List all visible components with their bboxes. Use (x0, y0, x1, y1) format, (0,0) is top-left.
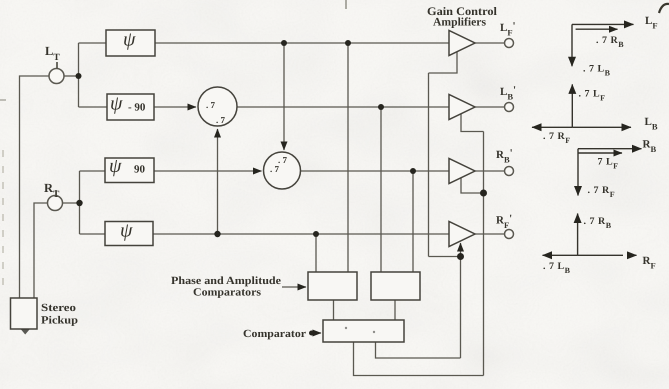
wire: amp4 gain arrow (460, 243, 462, 257)
wire: to psi-90 box 2 input (79, 106, 108, 108)
vector D2 vertical .7L_F (571, 84, 573, 127)
output terminal L_F' (505, 39, 514, 48)
output terminal R_F' (505, 230, 514, 239)
dot at comparator arrow tail (309, 331, 314, 336)
vector D4 right R_F head (628, 254, 637, 256)
wire: arrow into box A (282, 286, 306, 288)
wire: back control to amp2 (461, 114, 484, 132)
wire: comparator out 1 inner loop (376, 342, 461, 358)
svg-text:Amplifiers: Amplifiers (433, 17, 487, 29)
wire: tap from line 1 down into summer 2 (283, 43, 285, 150)
svg-text:Pickup: Pickup (41, 315, 78, 327)
wire: amp4 node down (460, 257, 462, 359)
vector D2 left .7R_F (532, 126, 572, 128)
vector diagram 1: L_F' composition (532, 24, 642, 255)
junction dot R_T (76, 200, 82, 206)
wire: amp3 gain control stub (461, 178, 484, 194)
junction dot line4 sense (313, 231, 319, 237)
junction dot line1 tap (281, 40, 287, 46)
svg-text:ψ: ψ (120, 220, 133, 242)
psi-90 box 2 (107, 94, 154, 120)
wire: line 1 L_F bus (155, 42, 449, 44)
vector D1 vertical .7L_B (571, 24, 573, 66)
junction dot line1 sense (345, 40, 351, 46)
vector D1 short .7R_B arrow (576, 28, 618, 30)
junction dot back riser amp3 tap (480, 190, 487, 197)
svg-text:90: 90 (134, 164, 146, 176)
amp 1 (449, 31, 475, 56)
output terminal R_B' (505, 167, 514, 176)
svg-text:ψ: ψ (123, 29, 136, 51)
wire: sense line 3 to comparator box B (412, 171, 414, 272)
wire: comparator out 2 outer loop (354, 342, 484, 376)
amp 3 (449, 159, 475, 184)
psi box 1 (106, 30, 155, 56)
wire: box A to comparator (333, 300, 335, 320)
psi box 4 (105, 222, 153, 246)
vector D1 horizontal L_F (572, 23, 634, 25)
wire: psi 90 box 3 output arrow into summer 2 (154, 170, 262, 172)
junction dot amp4 gain node (457, 253, 464, 260)
wire: arrow into comparator (311, 332, 321, 334)
svg-text:Comparators: Comparators (193, 287, 262, 299)
junction dot line4 tap (214, 231, 220, 237)
comparator box A (308, 272, 357, 300)
wire: sense line 4 to comparator box A (315, 234, 317, 272)
scan artifact: left page edge streak (2, 150, 4, 285)
amp 4 (449, 222, 475, 247)
scan artifact: top centre dash (345, 0, 347, 9)
wire: amp4 output (475, 233, 505, 235)
svg-text:ψ: ψ (110, 93, 123, 115)
svg-text:. 7: . 7 (206, 100, 216, 110)
junction dot L_T (76, 73, 82, 79)
pickup needle (21, 330, 30, 335)
summer circle 1 (198, 87, 237, 126)
wire: back control riser (483, 132, 485, 376)
vector D4 left .7L_B (543, 254, 578, 256)
wire: L_T junction vertical (78, 43, 80, 107)
vector D3 vertical .7R_F (577, 149, 579, 196)
svg-text:Comparator: Comparator (243, 328, 306, 340)
svg-text:. 7: . 7 (278, 155, 288, 165)
output terminal L_B' (505, 103, 514, 112)
terminal R_T (48, 196, 63, 211)
wire: line 4 R_F bus (153, 233, 449, 235)
scan artifact: left margin dash (0, 99, 6, 101)
wire: front control riser (428, 73, 430, 257)
junction dot line3 sense (410, 168, 416, 174)
wire: L_T terminal to junction (64, 75, 79, 77)
svg-text:ψ: ψ (109, 155, 122, 177)
wire: to psi-90 box 3 input (80, 170, 106, 172)
wire: psi-90 box 2 output arrow into summer 1 (154, 106, 196, 108)
wire: tap from line 4 up into summer 1 (217, 129, 219, 234)
wire: line 2 from summer 1 to amp 2 (238, 106, 450, 108)
vector D3 short .7L_F arrow (579, 152, 623, 154)
tick below R_T label (55, 190, 57, 196)
wire: sense line 1 to comparator box A (347, 43, 349, 272)
svg-text:- 90: - 90 (128, 102, 146, 114)
speck in comparator box (345, 327, 347, 329)
comparator box B (371, 272, 420, 300)
vector D3 horizontal R_B (578, 148, 642, 150)
vector D4 vertical .7R_B (577, 214, 579, 256)
wire: R_T to stereo pickup (34, 203, 48, 298)
tick below L_T label (56, 62, 58, 69)
comparator box C (323, 320, 404, 342)
wire: box B to comparator (394, 300, 396, 320)
vector D2 right L_B (572, 126, 631, 128)
wire: to psi box 4 input (80, 233, 106, 235)
speck in comparator box (373, 331, 375, 333)
svg-text:. 7: . 7 (270, 164, 280, 174)
summer circle 2 (264, 152, 301, 189)
amp 2 (449, 95, 475, 120)
wire: amp2 output (475, 106, 505, 108)
wire: amp1 gain control stub (429, 52, 458, 74)
vector D4 right R_F line (578, 254, 623, 256)
psi 90 box 3 (105, 158, 154, 183)
wire: summer 2 output to amp 3 (301, 170, 450, 172)
wire: sense line 2 to comparator box B (380, 107, 382, 272)
wire: front control to amp4 node (429, 256, 461, 258)
scan artifact: top right hook (659, 4, 669, 13)
svg-text:Stereo: Stereo (41, 302, 77, 314)
wire: amp3 output (475, 170, 505, 172)
svg-text:. 7: . 7 (216, 115, 226, 125)
wire: R_T junction vertical (79, 171, 81, 234)
junction dot line2 sense (378, 104, 384, 110)
terminal L_T (49, 69, 64, 84)
wire: amp1 output (475, 42, 505, 44)
wire: L_T to stereo pickup (20, 76, 50, 298)
svg-text:Phase and Amplitude: Phase and Amplitude (171, 275, 281, 287)
stereo pickup box (11, 298, 38, 329)
wire: to psi box 1 input (79, 42, 107, 44)
wire: R_T terminal to junction (63, 202, 80, 204)
